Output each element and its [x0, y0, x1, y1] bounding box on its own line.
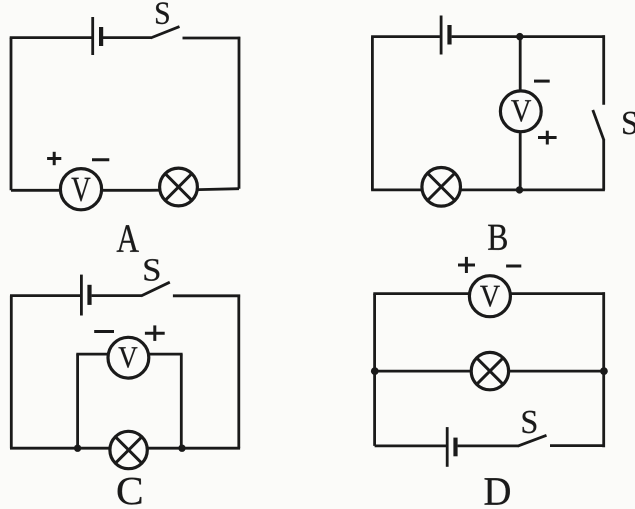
wire: B middle vertical branch [519, 37, 522, 190]
node: junction dot, C bottom-right [178, 445, 185, 452]
wire: B top, corner to battery [371, 35, 440, 38]
wire: A battery to switch pivot [103, 36, 151, 39]
wire: D middle branch [375, 370, 604, 373]
label A [117, 225, 139, 252]
voltmeter V, circuit A [60, 169, 101, 210]
node: junction dot, C bottom-left [74, 445, 81, 452]
wire: C right edge [237, 295, 240, 449]
polarity - (voltmeter C, left terminal) [94, 330, 114, 333]
lamp, circuit B [422, 168, 461, 207]
node: junction dot, B top [516, 33, 523, 40]
wire: C battery to switch pivot [92, 294, 142, 297]
lamp, circuit D [471, 352, 508, 389]
label B [488, 225, 507, 250]
wire: D switch contact to bottom-right corner [550, 444, 605, 447]
battery (cell), circuit B [441, 16, 452, 55]
polarity - (voltmeter D, right terminal) [506, 265, 521, 268]
wire: B bottom [371, 188, 605, 191]
node: junction dot, D middle-left [371, 367, 379, 375]
node: junction dot, D middle-right [600, 367, 608, 375]
switch S, circuit A (open lever) [151, 27, 180, 38]
battery (cell), circuit A [93, 17, 104, 55]
label S (circuit C) [144, 259, 159, 281]
wire: A bottom [11, 189, 239, 191]
label S (circuit D) [523, 411, 537, 433]
polarity + (voltmeter A, left terminal) [47, 152, 61, 165]
label D [485, 478, 510, 504]
voltmeter V, circuit C [108, 337, 149, 378]
wire: D right edge [602, 292, 605, 447]
polarity + (voltmeter C, right terminal) [145, 325, 165, 341]
polarity - (voltmeter B, top terminal) [534, 80, 550, 83]
wire: A switch contact to top-right corner [183, 37, 241, 40]
wire: B right edge lower [602, 140, 605, 190]
wire: C top, corner to battery [10, 294, 80, 297]
wire: B right edge upper (to switch contact) [602, 35, 605, 105]
lamp, circuit A [160, 168, 198, 206]
lamp, circuit C [110, 431, 147, 468]
wire: A right edge [238, 37, 241, 189]
switch S, circuit C (open lever) [141, 282, 170, 296]
polarity + (voltmeter D, left terminal) [458, 257, 475, 273]
voltmeter V, circuit B [500, 91, 541, 132]
voltmeter V, circuit D [469, 276, 510, 317]
node: junction dot, B bottom [516, 186, 523, 193]
label S (circuit B) [623, 112, 635, 135]
wire: C inner right vertical [180, 354, 183, 448]
wire: D battery to switch pivot [458, 444, 518, 447]
polarity + (voltmeter B, bottom terminal) [538, 131, 557, 145]
battery (cell), circuit D [447, 427, 457, 467]
wire: A left edge [10, 38, 13, 191]
wire: C switch contact to top-right corner [173, 294, 240, 297]
wire: D left edge [373, 294, 376, 446]
label C [118, 478, 142, 505]
switch S, circuit D (open lever) [518, 435, 547, 446]
wire: C bottom [10, 447, 240, 450]
wire: D top [373, 292, 605, 295]
wire: C left edge [10, 296, 13, 449]
wire: C inner left vertical [76, 354, 79, 448]
battery (cell), circuit C [81, 275, 91, 316]
wire: B top, battery to top-right corner [452, 35, 605, 38]
label S (circuit A) [156, 2, 169, 24]
wire: A top, corner to battery [10, 36, 92, 39]
wire: C inner top (voltmeter branch) [76, 353, 182, 356]
wire: B left edge [371, 37, 374, 190]
polarity - (voltmeter A, right terminal) [92, 158, 109, 161]
switch S, circuit B (open lever) [593, 110, 604, 141]
wire: D bottom, corner to battery [375, 444, 446, 447]
